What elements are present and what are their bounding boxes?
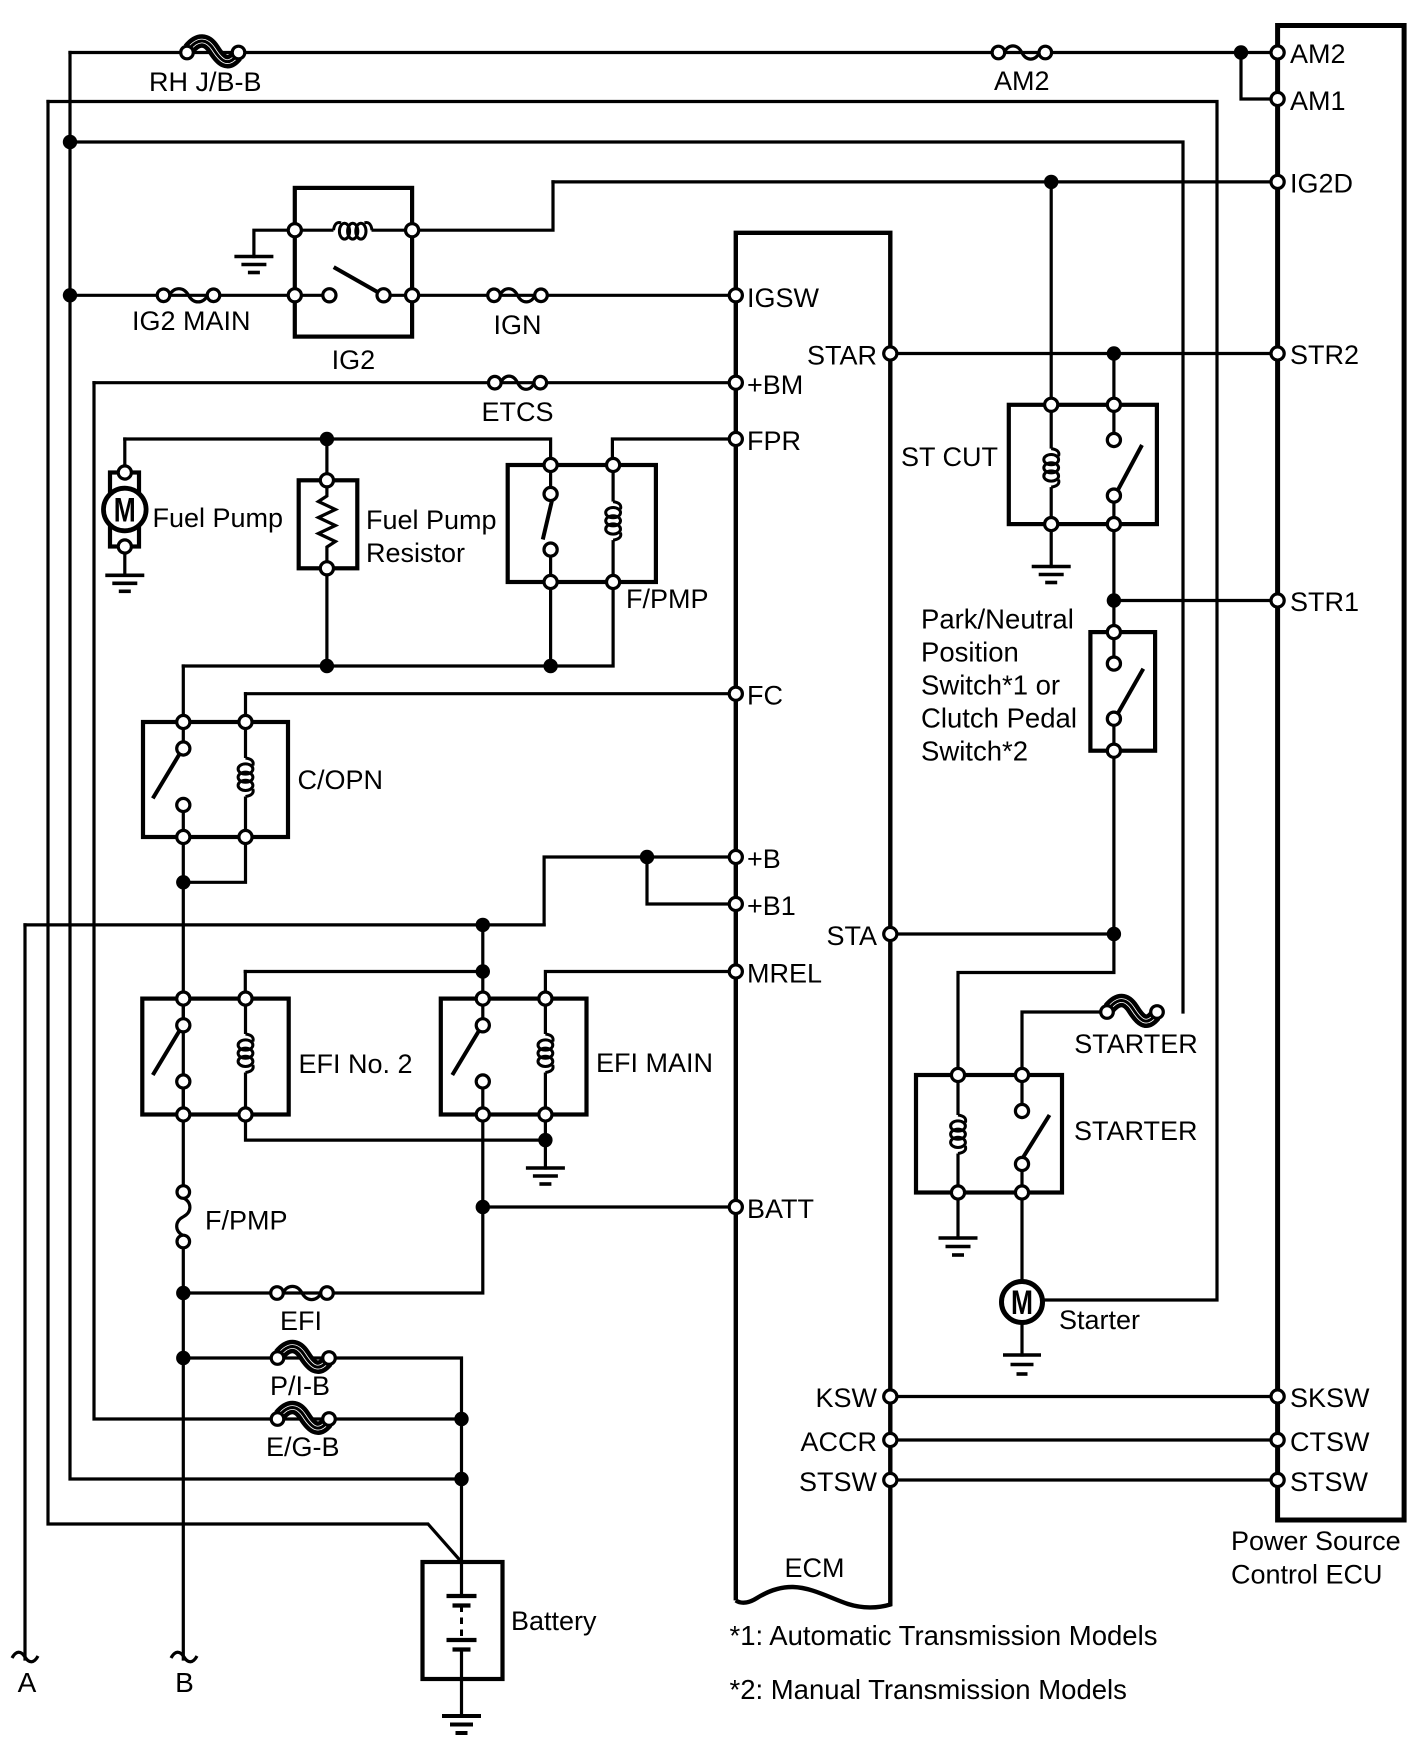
svg-text:Clutch Pedal: Clutch Pedal [921, 703, 1077, 734]
svg-text:F/PMP: F/PMP [626, 584, 709, 614]
svg-text:AM2: AM2 [994, 66, 1050, 96]
svg-text:ACCR: ACCR [800, 1427, 877, 1457]
svg-text:B: B [175, 1667, 194, 1698]
svg-text:Power Source: Power Source [1231, 1526, 1401, 1556]
svg-text:STARTER: STARTER [1074, 1116, 1198, 1146]
svg-text:Fuel Pump: Fuel Pump [366, 505, 497, 535]
svg-text:STSW: STSW [799, 1467, 878, 1497]
svg-text:IG2: IG2 [332, 345, 376, 375]
svg-text:Switch*1 or: Switch*1 or [921, 670, 1060, 701]
svg-text:STAR: STAR [807, 341, 877, 371]
svg-text:Switch*2: Switch*2 [921, 736, 1028, 767]
svg-text:P/I-B: P/I-B [270, 1371, 330, 1401]
svg-text:Control ECU: Control ECU [1231, 1560, 1383, 1590]
svg-text:SKSW: SKSW [1290, 1383, 1370, 1413]
svg-text:MREL: MREL [747, 959, 822, 989]
svg-text:+BM: +BM [747, 370, 803, 400]
svg-text:EFI MAIN: EFI MAIN [596, 1048, 713, 1078]
svg-text:M: M [1011, 1284, 1033, 1322]
svg-text:Resistor: Resistor [366, 538, 465, 568]
svg-text:Fuel Pump: Fuel Pump [153, 503, 284, 533]
svg-text:STR2: STR2 [1290, 340, 1359, 370]
svg-text:E/G-B: E/G-B [266, 1432, 340, 1462]
svg-text:AM2: AM2 [1290, 39, 1346, 69]
svg-text:AM1: AM1 [1290, 86, 1346, 116]
svg-text:Battery: Battery [511, 1606, 597, 1636]
svg-text:ECM: ECM [785, 1553, 845, 1583]
svg-text:STARTER: STARTER [1074, 1029, 1198, 1059]
svg-text:STA: STA [826, 921, 877, 951]
svg-text:M: M [114, 492, 136, 530]
svg-text:BATT: BATT [747, 1194, 814, 1224]
svg-text:*1: Automatic Transmission Mod: *1: Automatic Transmission Models [730, 1620, 1158, 1651]
svg-text:IGN: IGN [493, 310, 541, 340]
svg-text:CTSW: CTSW [1290, 1427, 1370, 1457]
svg-text:FC: FC [747, 681, 783, 711]
svg-text:RH J/B-B: RH J/B-B [149, 67, 262, 97]
svg-text:F/PMP: F/PMP [205, 1206, 288, 1236]
svg-text:Position: Position [921, 637, 1019, 668]
svg-text:IG2 MAIN: IG2 MAIN [132, 306, 251, 336]
svg-text:+B: +B [747, 844, 781, 874]
svg-text:EFI No. 2: EFI No. 2 [299, 1049, 413, 1079]
svg-text:A: A [18, 1667, 37, 1698]
svg-text:STSW: STSW [1290, 1467, 1369, 1497]
svg-text:*2: Manual Transmission Models: *2: Manual Transmission Models [730, 1674, 1127, 1705]
svg-text:ST CUT: ST CUT [901, 442, 998, 472]
svg-text:EFI: EFI [280, 1306, 322, 1336]
svg-text:ETCS: ETCS [481, 397, 553, 427]
svg-text:IG2D: IG2D [1290, 169, 1353, 199]
svg-text:Park/Neutral: Park/Neutral [921, 604, 1074, 635]
svg-text:KSW: KSW [815, 1383, 877, 1413]
svg-text:Starter: Starter [1059, 1305, 1140, 1335]
svg-text:C/OPN: C/OPN [298, 765, 384, 795]
svg-text:IGSW: IGSW [747, 283, 820, 313]
svg-text:+B1: +B1 [747, 891, 796, 921]
svg-text:FPR: FPR [747, 426, 801, 456]
svg-text:STR1: STR1 [1290, 587, 1359, 617]
